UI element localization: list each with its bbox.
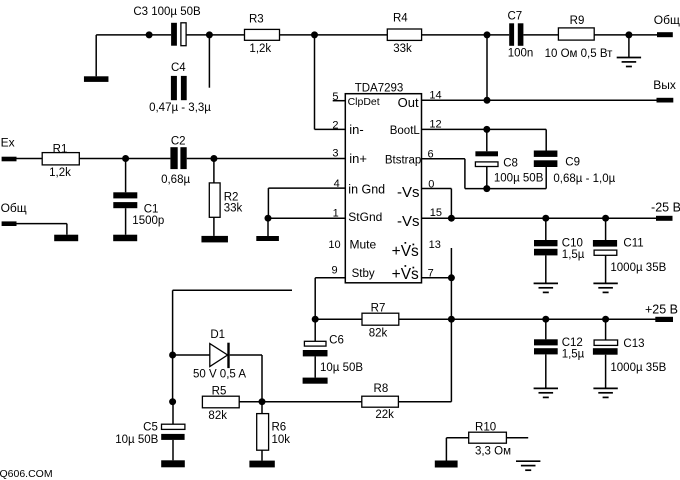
svg-text:C4: C4 [171,62,186,74]
node B (C3/C4 junction) [206,31,213,38]
svg-text:22k: 22k [375,409,394,421]
svg-text:Вых: Вых [653,78,676,92]
svg-text:Btstrap: Btstrap [385,155,421,167]
wire (pin 15 -Vs rail) [422,217,657,219]
svg-text:1,5µ: 1,5µ [562,249,585,261]
wire [172,355,174,402]
wire [187,158,346,160]
svg-text:100n: 100n [508,48,534,60]
wire [17,223,67,225]
node D (R4/C7 junction) [484,31,491,38]
ground [113,235,137,242]
svg-text:14: 14 [429,89,441,101]
svg-text:33k: 33k [224,203,243,215]
node L [448,215,455,222]
node H (C2/R2 junction) [210,155,217,162]
svg-text:9: 9 [331,264,337,276]
node Q (C12 top) [542,316,549,323]
pin 5 stub [333,100,346,102]
ground [516,460,540,462]
node A (C3 left junction) [146,31,153,38]
resistor R4 [387,29,421,40]
wire [314,35,316,129]
wire [315,318,362,320]
wire [208,35,210,88]
svg-text:in Gnd: in Gnd [348,182,385,196]
ground [593,387,617,389]
svg-text:C6: C6 [329,334,344,346]
terminal -25 В [656,216,673,221]
wire [239,401,262,403]
svg-text:3: 3 [332,148,338,160]
capacitor C11 [605,218,607,240]
svg-text:StGnd: StGnd [348,210,382,224]
wire [79,158,170,160]
svg-text:+Vs: +Vs [392,266,419,283]
svg-text:C2: C2 [171,136,186,148]
svg-text:1,2k: 1,2k [249,43,271,55]
svg-text:C13: C13 [623,338,644,350]
diode D1 [210,344,228,367]
svg-text:2: 2 [332,119,338,131]
terminal Вх [2,157,17,162]
wire [173,289,292,291]
wire (Out pin 14 to output) [422,99,657,101]
capacitor C3 [171,23,177,46]
svg-text:0,68µ - 1,0µ: 0,68µ - 1,0µ [553,173,615,185]
node S (Stby/R7 junction) [312,316,319,323]
ground [256,236,279,241]
ground [303,378,328,384]
svg-text:-Vs: -Vs [397,213,420,230]
svg-text:TDA7293: TDA7293 [355,83,404,95]
ground [534,282,558,284]
capacitor C1 [125,159,127,193]
svg-text:R10: R10 [475,422,496,434]
wire [446,437,468,439]
svg-text:3,3 Ом: 3,3 Ом [475,445,511,457]
svg-text:1000µ 35В: 1000µ 35В [610,362,666,374]
wire (pin 9 Stby) [315,277,345,279]
node C (R3/R4 junction) [311,31,318,38]
wire [267,218,269,236]
wire [506,437,528,439]
svg-text:1: 1 [333,207,339,219]
svg-text:Stby: Stby [352,268,375,280]
node K (C8 bottom junction) [483,185,490,192]
resistor R1 [42,153,79,165]
capacitor C6 [314,319,316,341]
node V (R5/R6/D1 junction) [259,398,266,405]
ground [534,387,558,389]
svg-text:C7: C7 [507,10,522,22]
capacitor C2 [170,147,177,169]
wire [486,35,488,100]
svg-text:0,68µ: 0,68µ [161,174,190,186]
wire [17,158,43,160]
svg-text:Q606.COM: Q606.COM [0,468,53,480]
wire (pin 7 +Vs) [422,277,452,279]
svg-text:Mute: Mute [350,238,377,252]
wire [545,129,547,150]
svg-text:R1: R1 [53,143,68,155]
svg-text:13: 13 [429,239,441,251]
wire (pin 4 in Gnd) [268,187,345,189]
wire [523,34,558,36]
terminal +25 В [655,317,673,322]
terminal Общ (top right) [657,32,673,37]
wire [594,34,657,36]
wire [486,129,488,151]
ground [249,461,274,468]
node R (C13 top) [602,316,609,323]
capacitor C4 [171,76,177,100]
svg-text:1500p: 1500p [132,215,164,227]
resistor R8 [362,396,399,407]
svg-text:R7: R7 [371,302,386,314]
ground [95,35,97,76]
svg-text:C3 100µ 50В: C3 100µ 50В [133,6,201,18]
svg-text:10: 10 [328,239,340,251]
wire (pin 12 BootL) [422,128,547,130]
svg-text:Ex: Ex [1,136,15,150]
resistor R3 [245,29,280,40]
svg-text:C5: C5 [143,421,158,433]
svg-text:10k: 10k [272,434,291,446]
node T (D1 anode junction) [169,352,176,359]
wire (pin 6 Btstrap) [422,158,465,160]
node M (C10 top) [542,215,549,222]
svg-text:33k: 33k [393,43,412,55]
capacitor C8 [475,151,498,156]
svg-text:1000µ 35В: 1000µ 35В [610,262,666,274]
resistor R7 [362,313,399,325]
svg-text:4: 4 [334,178,340,190]
capacitor C5 [172,402,174,425]
svg-text:+25 В: +25 В [645,303,678,317]
svg-text:C1: C1 [144,203,159,215]
svg-text:R3: R3 [249,13,264,25]
ground [54,235,78,242]
svg-text:R8: R8 [374,383,389,395]
svg-text:Out: Out [398,95,419,110]
ground [628,35,630,57]
svg-text:in+: in+ [349,151,367,166]
node J (C8 top junction) [483,126,490,133]
resistor R9 [558,28,594,40]
capacitor C9 [534,151,558,157]
resistor R2 [213,159,215,183]
wire [422,34,510,36]
svg-text:C12: C12 [562,337,583,349]
svg-text:82k: 82k [208,410,227,422]
wire [315,128,346,130]
svg-text:1,2k: 1,2k [49,167,71,179]
svg-text:BootL: BootL [390,125,421,137]
wire [398,401,451,403]
ground [593,282,617,284]
svg-text:100µ 50В: 100µ 50В [494,172,544,184]
node O (pin 7 junction) [448,274,455,281]
svg-text:0,47µ - 3,3µ: 0,47µ - 3,3µ [149,102,211,114]
wire [96,34,171,36]
wire [173,354,210,356]
svg-text:R2: R2 [224,191,239,203]
node P [448,316,455,323]
node U (R5 left junction) [169,398,176,405]
wire (pin 1 StGnd) [268,217,346,219]
wire (pin 0 -Vs) [422,188,452,190]
svg-text:-25 В: -25 В [651,200,680,214]
resistor R5 [202,396,239,408]
ground [161,460,185,467]
node E (R9/ground junction) [625,31,632,38]
svg-text:Общ: Общ [654,13,680,27]
svg-text:R4: R4 [393,13,408,25]
svg-text:82k: 82k [369,327,388,339]
node I (gnd junction) [265,215,272,222]
terminal Вых [657,98,674,103]
wire (pin 13 net) [450,248,452,402]
capacitor C12 [545,319,547,339]
wire (+Vs rail) [399,318,656,320]
terminal Общ (input) [2,221,17,226]
svg-text:10µ 50В: 10µ 50В [115,434,158,446]
wire [186,34,244,36]
svg-text:C11: C11 [623,237,643,249]
wire [230,354,262,356]
svg-text:1,5µ: 1,5µ [562,348,585,360]
svg-text:C10: C10 [562,237,583,249]
svg-text:R6: R6 [272,422,287,434]
svg-text:-Vs: -Vs [397,184,420,201]
capacitor C10 [545,218,547,240]
node G (R1/C1 junction) [122,155,129,162]
capacitor C7 [509,23,514,46]
svg-text:ClpDet: ClpDet [348,96,380,108]
resistor R6 [261,402,263,414]
ground [435,461,458,468]
node N (C11 top) [602,215,609,222]
svg-text:+Vs: +Vs [392,243,419,260]
svg-text:R9: R9 [570,15,585,27]
wire [262,401,362,403]
svg-text:10µ 50В: 10µ 50В [320,362,363,374]
svg-text:5: 5 [332,91,338,103]
svg-text:C8: C8 [503,158,518,170]
wire [280,34,388,36]
svg-text:C9: C9 [565,157,580,169]
resistor R10 [469,432,507,443]
svg-text:10 Ом 0,5 Вт: 10 Ом 0,5 Вт [545,48,614,60]
svg-text:15: 15 [430,207,442,219]
op-amp U1 TDA7293 box [345,94,421,283]
svg-text:D1: D1 [210,329,225,341]
svg-text:Общ: Общ [1,201,27,215]
svg-text:50 V 0,5 A: 50 V 0,5 A [193,368,246,380]
ground [201,236,228,243]
capacitor C13 [605,319,607,340]
svg-text:in-: in- [349,122,363,137]
node F (out junction) [484,97,491,104]
svg-text:R5: R5 [212,386,227,398]
